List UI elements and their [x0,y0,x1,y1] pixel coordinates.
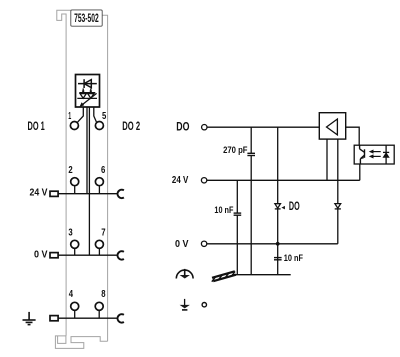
open node next to earth arrow [202,303,206,307]
24V clamp arc [118,190,124,198]
24V terminal square [50,191,58,196]
pin 1 [70,122,78,130]
wire LED box pin to terminal 1 [77,107,83,122]
svg-text:24 V: 24 V [172,174,188,186]
earth ground symbol left [23,312,36,325]
optocoupler light arrows [370,150,381,158]
pin 4 [71,302,79,310]
capacitor C2 10nF wire [236,180,238,213]
asterisk mark [281,206,285,210]
chassis ground symbol [212,271,236,281]
0V terminal square [50,253,58,258]
wire LED box inner pin to 0V rail [88,107,90,255]
text labels layer [28,12,304,300]
earth clamp arc [118,314,124,322]
capacitor C1 270pF plates [247,152,255,154]
svg-text:3: 3 [68,227,73,238]
wire diode D3 to 0V rail [337,209,339,244]
svg-text:7: 7 [101,227,106,238]
svg-text:6: 6 [101,165,106,176]
svg-text:4: 4 [69,289,74,300]
svg-text:0 V: 0 V [175,238,189,250]
svg-text:24 V: 24 V [30,187,48,199]
LED DO wire from DO rail to 0V rail [277,127,279,244]
wire LED box inner pin to 24V rail [86,107,88,194]
pin 3 [71,240,79,248]
pin 7 [95,240,103,248]
LED DO diode symbol [275,204,281,209]
wire amp bottom pin through 24V to diode [337,139,339,204]
svg-text:DO: DO [176,119,189,133]
optocoupler LED [385,145,387,164]
node 24V [201,178,206,183]
svg-text:0 V: 0 V [34,249,48,261]
node 0V [201,241,206,246]
node DO [202,125,207,130]
earth terminal square [50,316,58,321]
svg-text:270 pF: 270 pF [223,145,248,156]
svg-text:5: 5 [102,111,107,122]
wire LED box pin to terminal 5 [94,107,97,122]
diode D1 inside LED box (pointing left) [78,79,97,88]
svg-text:1: 1 [68,111,71,122]
amplifier U2 box [319,113,345,139]
wire DO rail [207,126,319,128]
earth rail in module [58,317,118,319]
24V rail in module [58,193,118,195]
junction dot 0V / 10nF [276,242,280,246]
svg-text:753-502: 753-502 [74,12,99,25]
label box 753-502 [71,10,102,26]
pin 2 [71,178,79,186]
svg-text:10 nF: 10 nF [284,253,303,264]
capacitor C2 10nF plates [234,212,242,214]
svg-text:DO 2: DO 2 [122,119,140,133]
wire optocoupler emitter to 24V rail [359,164,361,180]
module body outline right side [102,15,108,341]
module bottom latch slot [58,336,66,344]
0V clamp arc [118,251,124,259]
capacitor C3 10nF wire below 0V [277,244,279,275]
pin 8 [95,302,103,310]
svg-text:2: 2 [68,165,73,176]
capacitor C1 270pF wire [250,127,252,153]
chassis line [232,274,291,276]
earth arrow symbol [184,299,186,305]
pin 6 [95,178,103,186]
svg-text:8: 8 [101,289,106,300]
wire 24V rail [207,179,360,181]
optocoupler phototransistor [360,145,365,164]
module 753-502 body outline left side [57,10,71,336]
0V rail in module [58,254,118,256]
LED indicator box U1 [76,75,100,108]
optocoupler U3 box [354,145,394,164]
pin 5 [95,122,103,130]
diode D3 protection [335,204,341,209]
svg-text:DO 1: DO 1 [28,119,45,133]
dual status LED D2 inside LED box [77,88,97,107]
wire amp output to optocoupler [346,127,360,145]
wire amp bottom pin to 24V rail [326,139,328,180]
capacitor C3 10nF plates [274,257,282,259]
functional earth symbol [176,269,193,279]
wire 0V rail [207,243,338,245]
svg-text:DO: DO [289,201,300,213]
amplifier triangle [327,119,338,135]
svg-text:10 nF: 10 nF [214,205,233,216]
module bottom foot [55,336,107,349]
